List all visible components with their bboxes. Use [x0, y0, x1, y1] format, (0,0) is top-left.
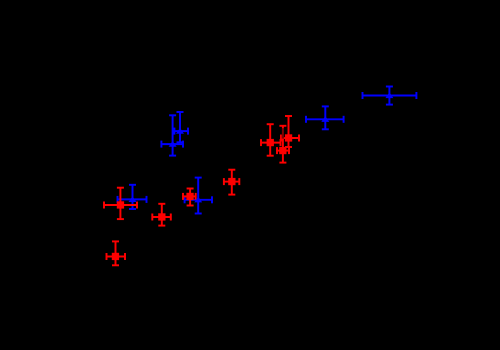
- point B5 x-error bar: [306, 116, 344, 123]
- point B6 x-error bar: [363, 92, 417, 99]
- point R8 y-error bar: [112, 241, 119, 265]
- point R6 y-error bar: [117, 188, 124, 219]
- point R4 x-error bar: [224, 178, 239, 185]
- point B4 x-error bar: [118, 196, 147, 203]
- point R6 x-error bar: [104, 202, 137, 209]
- blue triangle marker B1: [176, 128, 184, 134]
- blue triangle marker B2: [169, 141, 177, 147]
- point R2 x-error bar: [281, 135, 299, 142]
- point B6 y-error bar: [386, 87, 393, 105]
- red square marker R7: [158, 213, 165, 220]
- point R2 y-error bar: [285, 116, 292, 147]
- point R8 x-error bar: [107, 253, 126, 260]
- point R4 y-error bar: [228, 170, 235, 195]
- point B2 y-error bar: [169, 115, 176, 155]
- red square marker R1: [267, 139, 274, 146]
- point R3 y-error bar: [279, 126, 286, 163]
- point R3 x-error bar: [277, 147, 289, 154]
- point B3 y-error bar: [195, 178, 202, 214]
- point B2 x-error bar: [161, 141, 183, 148]
- point R5 x-error bar: [183, 193, 196, 200]
- dark overlap streak on R3 y-error bar: [282, 128, 284, 138]
- red square marker R3: [279, 147, 286, 154]
- red square marker R6: [117, 201, 124, 208]
- point B3 x-error bar: [185, 196, 212, 203]
- red square marker R4: [228, 178, 235, 185]
- blue triangle marker B3: [194, 197, 202, 203]
- point R7 y-error bar: [158, 204, 165, 226]
- point R1 x-error bar: [261, 139, 281, 146]
- blue triangle marker B6: [385, 92, 393, 98]
- point R5 y-error bar: [187, 189, 194, 206]
- red square marker R5: [186, 193, 193, 200]
- point B1 x-error bar: [174, 128, 188, 135]
- blue triangle marker B4: [129, 196, 137, 202]
- red square marker R8: [112, 253, 119, 260]
- point B5 y-error bar: [322, 106, 329, 129]
- point R7 x-error bar: [152, 214, 171, 221]
- red square marker R2: [285, 134, 292, 141]
- point R1 y-error bar: [267, 124, 274, 156]
- point B1 y-error bar: [177, 112, 184, 142]
- point B4 y-error bar: [129, 185, 136, 209]
- blue triangle marker B5: [321, 116, 329, 122]
